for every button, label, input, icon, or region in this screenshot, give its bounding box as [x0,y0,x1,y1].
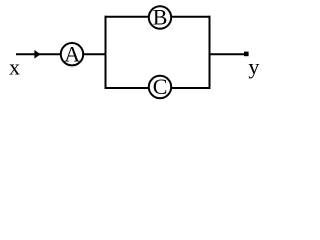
svg-text:y: y [248,54,259,79]
wire A to box [84,53,107,55]
wire input line x to A [16,53,61,55]
component A circle [61,43,83,65]
svg-text:B: B [153,4,168,29]
arrowhead on input wire [34,50,40,59]
svg-text:x: x [9,54,20,79]
wire output line to y [210,53,246,55]
component C circle [149,76,171,98]
wire box top line [105,16,211,18]
node terminal square at y [244,52,249,57]
wire box left vertical [105,16,107,89]
svg-text:A: A [64,41,80,66]
wire box right vertical [209,16,211,89]
wire box bottom line [105,87,211,89]
svg-text:C: C [153,74,168,99]
component B circle [149,6,171,28]
